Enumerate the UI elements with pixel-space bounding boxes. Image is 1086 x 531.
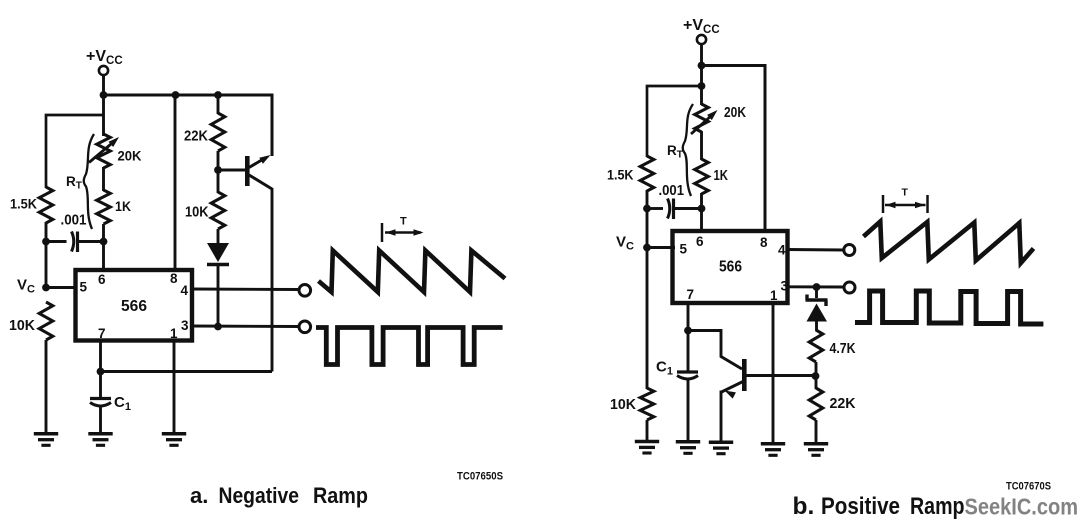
svg-text:10K: 10K (9, 318, 36, 334)
wire cap left (46, 240, 67, 243)
wire 20K to 1K (102, 167, 105, 191)
svg-text:20K: 20K (118, 148, 142, 164)
VCC rail to pin8 (right) (702, 66, 766, 233)
capacitor .001 (left) (72, 232, 74, 252)
wire 1K to cap node (right) (700, 193, 703, 209)
wire Q2 emitter to ground (720, 391, 723, 443)
wire rail to 20K (700, 66, 703, 106)
terminal pin4 out (left) (299, 285, 311, 297)
VCC rail (left) (104, 95, 273, 156)
wire C1 to ground (right) (687, 379, 690, 442)
resistor 1.5K (right) (640, 156, 654, 191)
svg-text:1: 1 (170, 326, 178, 341)
VCC terminal (left) (99, 66, 108, 75)
wire pin5 (right) (647, 246, 675, 249)
svg-text:3: 3 (181, 318, 189, 333)
svg-text:T: T (400, 216, 407, 228)
svg-text:10K: 10K (185, 205, 209, 221)
terminal pin3 out (left) (299, 321, 311, 333)
ground (C1 left) (88, 432, 112, 436)
svg-text:SeekIC.com: SeekIC.com (965, 494, 1079, 520)
resistor 10K (left lower) (39, 302, 53, 340)
ground (left branch) (34, 432, 58, 436)
wire C1 to ground (99, 406, 102, 434)
resistor RT 20K (left, variable) (97, 134, 111, 168)
resistor 10K (right) (640, 388, 654, 420)
svg-text:5: 5 (80, 280, 88, 295)
ground (C1 right) (676, 440, 700, 444)
Q2 base wire (746, 374, 813, 377)
ground (pin1 right) (761, 442, 785, 446)
svg-text:22K: 22K (830, 396, 857, 412)
wire cap right (right) (674, 207, 702, 210)
wire diode to 4.7K (815, 321, 818, 331)
svg-text:1K: 1K (714, 168, 729, 184)
wire 1K to pin6 (right) (700, 207, 703, 233)
wire 1K to pin6 (102, 224, 105, 271)
wire 1.5K to cap node (right) (646, 190, 649, 209)
wire pin1 (right) (772, 301, 775, 444)
svg-text:1K: 1K (115, 198, 131, 214)
resistor 10K (left upper) (211, 192, 225, 229)
svg-text:566: 566 (719, 259, 742, 276)
svg-text:TC07670S: TC07670S (1006, 481, 1051, 493)
diode CR2 (right, zener) (806, 298, 828, 301)
svg-text:4: 4 (181, 283, 189, 298)
ground (10K right) (635, 440, 659, 444)
svg-text:1.5K: 1.5K (10, 196, 37, 212)
wire pin1 (left) (173, 340, 176, 434)
svg-text:.001: .001 (659, 183, 685, 199)
junction rail-left (100, 91, 108, 99)
wire 1.5K to VC node (45, 222, 48, 289)
junction cap-left (42, 238, 50, 246)
wire 20K to 1K (right) (700, 131, 703, 160)
junction cap-left (right) (643, 205, 651, 213)
svg-text:6: 6 (98, 272, 106, 287)
wire pin7 junction to collector (101, 370, 273, 373)
wire rail to 22K (217, 95, 220, 114)
junction pin7 (97, 368, 105, 376)
junction diode-pin3 (right) (813, 283, 821, 291)
resistor RT 20K (right, variable) (695, 104, 709, 132)
wire rail to 20K (left) (102, 95, 105, 136)
resistor 22K (left) (211, 113, 225, 151)
resistor 1K (right) (695, 159, 709, 194)
junction 1.5K branch (right) (698, 82, 706, 90)
wire VCC down (700, 44, 703, 66)
wire to 1.5K branch (right) (647, 86, 702, 157)
capacitor .001 (right) (668, 199, 670, 219)
square waveform (left) (316, 328, 503, 365)
T marker (left) (381, 223, 384, 242)
junction rail-pin8 (172, 91, 180, 99)
resistor 1K (left) (97, 190, 111, 224)
wire pin3 (right) (787, 285, 844, 288)
wire pin3 node to diode (815, 287, 818, 298)
RT brace (right) (683, 104, 693, 196)
Q2 emitter (722, 381, 745, 392)
ground (22K right) (804, 442, 828, 446)
wire 22K to node (217, 151, 220, 171)
wire 10K to ground (right) (646, 420, 649, 442)
svg-text:T: T (902, 187, 909, 199)
svg-text:1: 1 (770, 288, 778, 303)
wire node to Q1 base (218, 169, 246, 172)
diode CR1 (left) (207, 243, 229, 262)
wire rail to 1.5K branch (46, 115, 104, 188)
square waveform (right) (855, 291, 1043, 324)
wire pin7 node to Q2 collector (688, 331, 742, 370)
wire 10K to diode (217, 229, 220, 244)
wire VC to 10K (right) (646, 248, 649, 390)
T marker (right) (882, 195, 885, 213)
svg-text:10K: 10K (610, 397, 637, 413)
wire VCC to rail (102, 75, 105, 96)
svg-text:5: 5 (680, 242, 688, 257)
resistor 1.5K (left) (39, 187, 53, 223)
resistor 4.7K (right) (809, 330, 823, 362)
wire pin4 (left) (192, 288, 299, 291)
svg-text:TC07650S: TC07650S (457, 471, 503, 483)
wire pin3 (left) (192, 325, 299, 328)
svg-text:20K: 20K (724, 105, 746, 121)
wire cap left (right) (646, 207, 649, 248)
terminal pin4 out (right) (844, 245, 855, 256)
terminal pin3 out (right) (844, 282, 855, 293)
svg-text:22K: 22K (184, 129, 208, 145)
junction pin7 (right) (684, 327, 692, 335)
junction diode-pin3 (214, 323, 222, 331)
junction cap-right (right) (698, 205, 706, 213)
transistor Q1 (left) (245, 156, 250, 186)
svg-text:1.5K: 1.5K (607, 167, 634, 183)
svg-text:8: 8 (170, 271, 178, 286)
svg-text:7: 7 (98, 326, 106, 341)
junction rail-22K (214, 91, 222, 99)
junction 22K-10K-base (214, 166, 222, 174)
wire 4.7K to node (815, 362, 818, 377)
wire diode to pin3 line (217, 266, 220, 327)
junction base node (right) (812, 372, 820, 380)
svg-text:566: 566 (121, 298, 147, 315)
wire pin7 (right) (687, 301, 690, 331)
IC U2 566 (right) (673, 231, 788, 303)
wire 10K to ground (45, 340, 48, 434)
svg-text:4: 4 (778, 243, 786, 258)
wire pin7 to C1 (right) (687, 331, 690, 373)
sawtooth waveform (right) (864, 222, 1034, 264)
wire node to 10K (217, 170, 220, 193)
svg-text:4.7K: 4.7K (830, 341, 856, 357)
wire pin8 (left) (174, 95, 177, 271)
junction cap-right (100, 238, 108, 246)
VCC terminal (right) (697, 35, 706, 44)
sawtooth waveform (left) (319, 251, 506, 293)
IC U1 566 (left) (76, 270, 193, 341)
wire pin4 (right) (787, 248, 844, 251)
transistor Q2 (right) (742, 359, 747, 391)
capacitor C1 (left) (90, 397, 111, 400)
capacitor C1 (right) (677, 370, 698, 373)
svg-text:7: 7 (687, 287, 695, 302)
RT brace (left) (84, 134, 94, 229)
wire Q1 collector down (271, 188, 274, 372)
junction rail (right) (698, 62, 706, 70)
wire 22K to ground (815, 420, 818, 444)
wire cap right (78, 240, 104, 243)
wire pin7 to C1 (99, 372, 102, 399)
svg-text:8: 8 (760, 235, 768, 250)
ground (pin1 left) (162, 432, 186, 436)
wire node to 22K (right) (815, 376, 818, 389)
ground (Q2 right) (709, 440, 733, 444)
wire pin5 (left) (46, 286, 77, 289)
svg-text:6: 6 (696, 234, 704, 249)
wire pin7 (left) (99, 340, 102, 372)
svg-text:.001: .001 (61, 213, 87, 229)
resistor 22K (right) (809, 388, 823, 420)
